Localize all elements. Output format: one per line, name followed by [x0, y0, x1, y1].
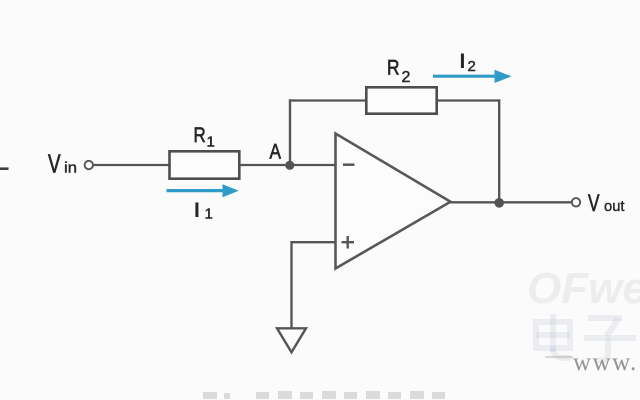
node output — [494, 198, 504, 208]
svg-text:1: 1 — [205, 206, 213, 223]
node Vin terminal — [85, 161, 93, 169]
wire (R2 to right corner) — [437, 99, 501, 101]
caption (cropped glyph tops) — [203, 391, 445, 399]
svg-text:V: V — [588, 190, 600, 217]
svg-text:OFweek: OFweek — [527, 264, 640, 313]
svg-text:R: R — [194, 124, 206, 147]
svg-text:A: A — [270, 140, 282, 163]
svg-text:I: I — [194, 199, 200, 222]
wire (R1 to op-amp inverting input) — [239, 164, 336, 166]
watermark 电子 glyphs (drawn strokes) — [536, 314, 636, 360]
watermark dash — [545, 356, 573, 358]
label R1 — [194, 124, 215, 151]
node A — [285, 161, 294, 170]
wire (right vertical down to output) — [498, 99, 500, 202]
label R2 — [387, 56, 411, 86]
wire (op-amp output) — [449, 201, 572, 203]
wire (left edge stub) — [0, 167, 9, 170]
svg-text:in: in — [64, 159, 77, 176]
svg-text:1: 1 — [207, 133, 215, 150]
resistor R1 — [170, 151, 240, 178]
current arrow I2 — [433, 70, 512, 83]
svg-text:out: out — [604, 198, 625, 215]
current arrow I1 — [167, 184, 239, 197]
node Vout terminal — [572, 198, 580, 206]
wire (non-inverting input to ground) — [292, 242, 337, 329]
resistor R2 — [366, 87, 436, 113]
wire (node A up) — [289, 99, 291, 165]
label I2 — [460, 50, 476, 75]
op-amp U1 — [336, 134, 451, 269]
svg-text:www.: www. — [573, 349, 638, 376]
svg-text:I: I — [460, 50, 466, 73]
svg-text:2: 2 — [402, 69, 411, 86]
label I1 — [194, 199, 213, 223]
svg-text:V: V — [48, 148, 61, 178]
wire (top horizontal to R2) — [289, 99, 366, 101]
svg-text:2: 2 — [468, 58, 476, 75]
label Vout — [588, 190, 625, 217]
wire (Vin to R1) — [93, 164, 169, 166]
svg-text:R: R — [387, 56, 400, 79]
ground — [277, 328, 306, 352]
label Vin — [48, 148, 77, 178]
